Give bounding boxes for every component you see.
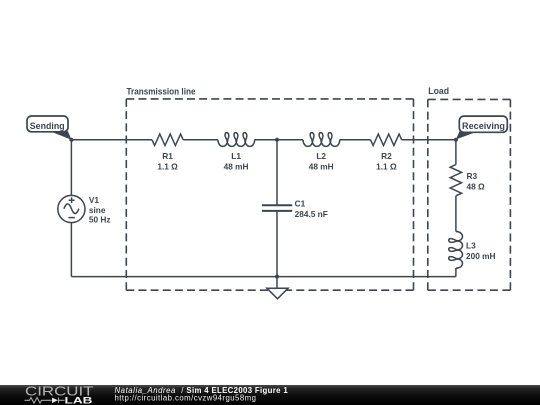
svg-text:LAB: LAB — [65, 395, 94, 405]
svg-text:C1: C1 — [295, 199, 306, 209]
ground symbol — [267, 277, 288, 299]
wire node A down to V1 top — [70, 140, 72, 196]
node Receiving flag — [459, 116, 507, 132]
wire R2 to node B — [402, 139, 456, 141]
svg-text:1.1 Ω: 1.1 Ω — [376, 162, 397, 172]
svg-text:284.5 nF: 284.5 nF — [295, 209, 328, 219]
wire L3 to bottom rail corner — [455, 268, 457, 277]
svg-text:R3: R3 — [467, 171, 478, 181]
svg-text:http://circuitlab.com/cvzw94rg: http://circuitlab.com/cvzw94rgu58mg — [115, 393, 257, 402]
wire node C down to C1 — [276, 140, 278, 205]
svg-text:L1: L1 — [231, 151, 241, 161]
transmission line box — [126, 99, 413, 290]
svg-text:200 mH: 200 mH — [466, 251, 496, 261]
svg-text:Receiving: Receiving — [462, 121, 505, 131]
V1 sine symbol — [64, 204, 79, 214]
node B junction dot — [454, 138, 458, 142]
wire L1 to L2 through node C — [254, 139, 303, 141]
svg-text:V1: V1 — [89, 195, 100, 205]
node D junction dot — [275, 275, 279, 279]
wire top: node A to R1 — [71, 139, 152, 141]
load box — [428, 99, 511, 290]
svg-text:sine: sine — [89, 205, 106, 215]
node Sending flag — [27, 116, 68, 132]
Sending flag pointer — [50, 131, 71, 140]
V1 plus sign — [69, 197, 75, 203]
voltage source V1 circle — [58, 195, 85, 222]
inductor L2 — [303, 133, 340, 147]
resistor R3 — [450, 165, 461, 196]
capacitor C1 bottom plate — [262, 210, 292, 212]
logo schematic line with resistor and diode — [25, 397, 65, 403]
svg-text:50 Hz: 50 Hz — [89, 215, 111, 225]
node A junction dot — [69, 138, 73, 142]
footer bar — [0, 385, 540, 405]
logo diode triangle — [52, 397, 58, 402]
wire node B down to R3 — [455, 140, 457, 165]
wire L2 to R2 — [340, 139, 371, 141]
svg-text:48 mH: 48 mH — [309, 162, 334, 172]
resistor R1 — [152, 134, 183, 145]
svg-text:L3: L3 — [466, 241, 476, 251]
svg-text:R2: R2 — [381, 151, 392, 161]
inductor L1 — [218, 133, 255, 147]
svg-text:48 mH: 48 mH — [224, 162, 249, 172]
wire R1 to L1 — [183, 139, 218, 141]
wire bottom rail — [71, 276, 456, 278]
inductor L3 — [449, 232, 463, 269]
svg-text:Transmission line: Transmission line — [127, 86, 196, 96]
svg-text:L2: L2 — [316, 151, 326, 161]
wire C1 to node D — [276, 211, 278, 277]
capacitor C1 top plate — [262, 204, 292, 206]
wire R3 to L3 — [455, 196, 457, 232]
V1 minus sign — [68, 217, 74, 219]
svg-text:48 Ω: 48 Ω — [467, 182, 486, 192]
resistor R2 — [371, 134, 402, 145]
node C junction dot — [275, 138, 279, 142]
svg-text:1.1 Ω: 1.1 Ω — [157, 162, 178, 172]
Receiving flag pointer — [456, 131, 478, 139]
wire V1 bottom to bottom rail — [70, 223, 72, 277]
svg-text:Sending: Sending — [30, 121, 65, 131]
svg-text:Load: Load — [428, 86, 449, 96]
svg-text:R1: R1 — [162, 151, 173, 161]
